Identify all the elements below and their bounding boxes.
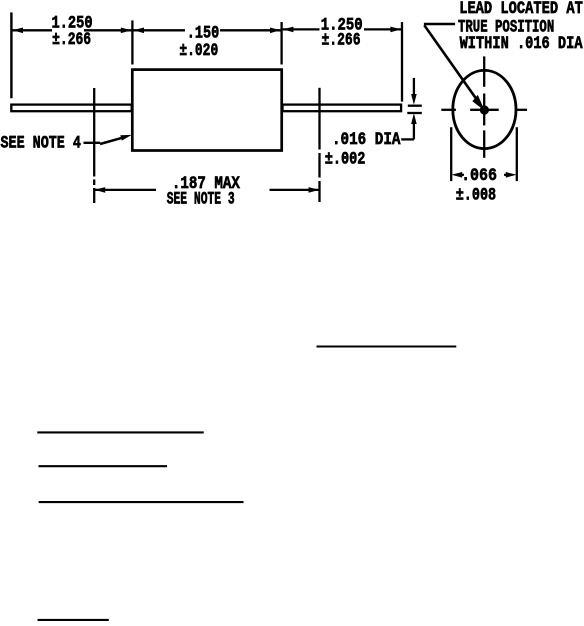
lead dia top arrow line — [413, 78, 415, 95]
rule list 2 — [39, 465, 168, 467]
svg-text:WITHIN .016 DIA: WITHIN .016 DIA — [460, 33, 583, 53]
centerline vertical — [483, 56, 485, 86]
text TRUE POSITION — [458, 16, 554, 37]
ellipse lead end view — [453, 70, 516, 148]
text .187 MAX — [172, 174, 240, 194]
svg-text:±.266: ±.266 — [52, 29, 91, 49]
arrowhead .066 L — [452, 172, 463, 178]
text ±.266 left — [52, 29, 91, 49]
ext line .187 right — [318, 88, 320, 150]
svg-text:SEE NOTE 4: SEE NOTE 4 — [1, 133, 81, 153]
text LEAD LOCATED AT — [459, 0, 583, 19]
text SEE NOTE 4 — [1, 133, 81, 153]
arrowhead .066 R — [506, 172, 517, 178]
lead dia top tick — [408, 105, 422, 107]
text WITHIN .016 DIA — [460, 33, 583, 53]
center dot — [480, 105, 489, 114]
text ±.020 — [179, 40, 218, 60]
rule list 3 — [39, 501, 244, 503]
ext line .187 left — [93, 88, 95, 177]
dim line 1.250 left — [12, 29, 52, 31]
svg-text:±.002: ±.002 — [325, 149, 366, 169]
arrowhead lead dia up — [411, 113, 417, 124]
ext line lead tip left — [10, 12, 12, 98]
dim line .187 — [95, 189, 157, 191]
arrowhead .150 R — [270, 28, 281, 34]
text SEE NOTE 3 — [167, 190, 235, 209]
svg-text:.016 DIA: .016 DIA — [332, 130, 401, 150]
arrowhead leader to center — [472, 95, 484, 111]
.066 ext line left — [450, 127, 452, 181]
ext line body right top — [280, 22, 282, 65]
svg-text:SEE NOTE 3: SEE NOTE 3 — [167, 190, 235, 209]
arrowhead .066 stub R — [504, 174, 508, 176]
svg-text:±.008: ±.008 — [456, 185, 496, 205]
dim line .150 — [134, 29, 186, 31]
left lead — [11, 105, 131, 112]
lead dia bottom arrow line — [413, 122, 415, 139]
arrowhead .187 R — [309, 187, 320, 193]
.066 ext line right — [516, 127, 518, 181]
rule bottom — [38, 619, 109, 621]
ext line lead tip right — [401, 22, 403, 102]
arrowhead 1.250 left R — [121, 28, 132, 34]
svg-text:±.266: ±.266 — [322, 30, 361, 50]
arrowhead .150 L — [133, 28, 144, 34]
right lead — [283, 105, 402, 112]
text 1.250 right — [321, 15, 363, 35]
arrowhead 1.250 left L — [12, 28, 23, 34]
centerline horizontal — [441, 109, 456, 111]
svg-text:±.020: ±.020 — [179, 40, 218, 60]
leader LEAD LOCATED AT — [424, 23, 455, 26]
svg-text:.066: .066 — [461, 165, 497, 185]
ext line body left top — [131, 20, 133, 64]
dim line 1.250 right — [283, 28, 320, 30]
text 1.250 left — [51, 13, 92, 33]
arrowhead 1.250 right R — [390, 27, 401, 33]
text ±.008 — [456, 185, 496, 205]
arrowhead .187 L — [95, 187, 106, 193]
text .066 — [461, 165, 497, 185]
arrowhead 1.250 right L — [283, 27, 294, 33]
text .150 — [187, 23, 219, 43]
arrowhead SEE NOTE 4 — [120, 135, 131, 141]
arrowhead lead dia down — [411, 94, 417, 105]
SEE NOTE 4 leader — [84, 142, 101, 144]
rule under heading mid — [317, 345, 457, 347]
text ±.266 right — [322, 30, 361, 50]
text .016 DIA — [332, 130, 401, 150]
arrowhead .066 stub L — [461, 174, 465, 176]
lead dia bottom tick — [407, 112, 422, 114]
text ±.002 — [325, 149, 366, 169]
component body — [132, 70, 281, 151]
rule list 1 — [37, 431, 203, 433]
leader to .016 DIA text — [401, 138, 414, 140]
